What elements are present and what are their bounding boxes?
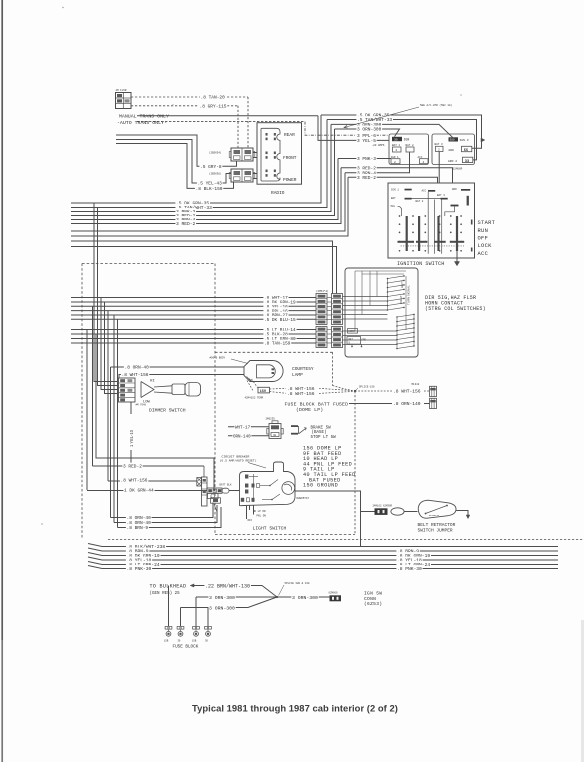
label .5 DK BLU-15 xyxy=(263,316,296,322)
label 3 RED-2 light switch xyxy=(122,463,142,469)
svg-text:MANUAL TRANS ONLY: MANUAL TRANS ONLY xyxy=(119,114,169,120)
wire feed BRN-9 riser xyxy=(117,319,119,527)
ign sw thick contact bars xyxy=(406,216,408,251)
scan edge left border xyxy=(1,0,3,640)
svg-text:.5 GRY-8: .5 GRY-8 xyxy=(200,164,222,170)
wires strip2 into switch box upper xyxy=(343,296,388,298)
radio connector inner xyxy=(261,128,280,181)
wire oval to retractor xyxy=(404,511,417,513)
svg-text:BAT: BAT xyxy=(391,197,396,200)
label .8 BRN-27 xyxy=(263,312,288,318)
wire 3 ORN-300 second xyxy=(181,597,278,608)
wire .8 DK GRN-19 xyxy=(71,301,316,303)
label .8 ORN-140 xyxy=(392,400,421,406)
svg-text:42M4152 TERM: 42M4152 TERM xyxy=(245,396,264,399)
svg-text:3 ORN-300: 3 ORN-300 xyxy=(292,595,318,601)
wire riser down to column connector 2 xyxy=(71,247,337,294)
scan speck marks xyxy=(62,7,63,8)
label .8 WHT-156 upper xyxy=(286,385,315,391)
svg-text:159: 159 xyxy=(260,390,266,394)
svg-text:ACC: ACC xyxy=(478,251,489,257)
svg-text:5EE A/C-HTR (5EC 1A): 5EE A/C-HTR (5EC 1A) xyxy=(420,103,453,107)
wire .8 TAN-159 xyxy=(71,342,316,344)
dashed wire to connector M1342 xyxy=(424,390,430,392)
light switch 40 box xyxy=(211,498,221,503)
radio pins group xyxy=(266,170,268,173)
label .8 YEL-16 xyxy=(263,303,288,309)
dashed boundary top xyxy=(82,263,215,265)
wire 3 RED-2 to light switch xyxy=(93,465,205,467)
wire bundle riser ORN-300 xyxy=(71,173,345,231)
wire feed ORN-40 second riser xyxy=(113,315,115,523)
svg-text:BRAKE 5W: BRAKE 5W xyxy=(311,427,332,431)
svg-text:Typical 1981 through 1987 cab: Typical 1981 through 1987 cab interior (… xyxy=(192,703,398,714)
svg-text:IGN: IGN xyxy=(404,138,410,142)
svg-text:1 YEL-10: 1 YEL-10 xyxy=(129,429,134,447)
connector 2M6235 body xyxy=(269,424,281,439)
fuse terminal 1 xyxy=(165,627,168,630)
svg-text:TO BULKHEAD: TO BULKHEAD xyxy=(150,583,187,589)
svg-text:RHEO5TAT: RHEO5TAT xyxy=(297,497,310,500)
svg-text:5WITCH JUMPER: 5WITCH JUMPER xyxy=(418,527,453,533)
label bottom left .8 PNK-30 xyxy=(126,565,152,571)
dashed wire dome feed down xyxy=(332,352,334,385)
svg-text:3 ORN-300: 3 ORN-300 xyxy=(357,127,382,133)
wire ORN-140 stub xyxy=(228,435,269,437)
svg-text:.8 ORN-140: .8 ORN-140 xyxy=(393,401,421,407)
wire feed RED-2 light switch xyxy=(92,306,94,466)
svg-text:REAR: REAR xyxy=(284,132,295,138)
dashed boundary left vertical xyxy=(81,264,83,540)
svg-text:(2B5K54): (2B5K54) xyxy=(209,151,222,155)
wire bulkhead arrow xyxy=(193,586,277,598)
svg-text:LIGHT 5WITCH: LIGHT 5WITCH xyxy=(253,525,287,531)
svg-text:ORN-140: ORN-140 xyxy=(233,435,251,439)
svg-text:.8 WHT-156: .8 WHT-156 xyxy=(393,389,421,395)
label 3 ORN-300 first xyxy=(208,593,235,599)
svg-text:COURTE5Y: COURTE5Y xyxy=(292,366,314,372)
label .5 DK GRN-35 xyxy=(356,112,390,118)
svg-text:DIMMER 5WITCH: DIMMER 5WITCH xyxy=(149,407,186,413)
dashed wire 159 to WHT-156 labels xyxy=(270,387,287,390)
label bottom left .8 BRN-9 xyxy=(126,548,149,554)
wire retractor drop to bottom bundle xyxy=(360,512,362,547)
svg-text:3 RED-2: 3 RED-2 xyxy=(176,221,196,227)
wire 3 BRN-4 to BAT 2 xyxy=(345,152,410,173)
radio U1 box xyxy=(257,123,302,185)
pin 33 xyxy=(463,157,473,162)
connector box U2 xyxy=(389,134,429,165)
wire retractor to ground xyxy=(456,511,468,516)
wire .8 GRY-115 dashed xyxy=(131,105,238,107)
svg-text:PNL ON: PNL ON xyxy=(257,515,267,518)
dashed wire splice to right WHT-156 xyxy=(355,390,392,392)
wire .8 PPL-16 xyxy=(71,310,316,312)
svg-text:3 RED-2: 3 RED-2 xyxy=(357,175,376,181)
column connector strip lower x316 xyxy=(316,327,327,348)
label .8 DK GRN-19 xyxy=(263,299,296,305)
svg-text:BATT BLK: BATT BLK xyxy=(220,483,233,486)
dashed boundary bottom horizontal xyxy=(215,534,355,536)
wire bundle riser PNK-3 xyxy=(71,124,331,211)
label bottom left .8 DK GRN-19 xyxy=(126,552,161,558)
svg-text:1 DK GRN-44: 1 DK GRN-44 xyxy=(124,488,154,494)
svg-text:OFF: OFF xyxy=(248,519,253,522)
svg-text:(6.5 AMP/AUTO RE5ET): (6.5 AMP/AUTO RE5ET) xyxy=(220,458,257,462)
svg-text:(5TRG COL 5WITCHE5): (5TRG COL 5WITCHE5) xyxy=(425,306,486,312)
svg-text:.8 WHT-156: .8 WHT-156 xyxy=(122,372,149,378)
light switch pill connector xyxy=(222,488,229,493)
wire .8 BLK-150 xyxy=(116,144,234,189)
svg-text:5PLICE-156: 5PLICE-156 xyxy=(359,385,375,388)
svg-text:RADIO: RADIO xyxy=(271,190,285,196)
label 3 BRN-4 xyxy=(356,169,376,175)
wire 3 ORN-300 to pin 30 xyxy=(335,129,400,137)
ignition switch S1 box xyxy=(388,183,475,258)
svg-text:POWER: POWER xyxy=(283,177,297,183)
ign sw contact dots grid xyxy=(399,215,401,217)
label 1 DK GRN-44 xyxy=(123,487,154,493)
wire .8 ORN-40 to courtesy lamp xyxy=(111,366,245,368)
wires strip1 to strip2 xyxy=(327,297,332,299)
dimmer switch triangle xyxy=(141,382,154,398)
label .5 TAN/WHT-33 left xyxy=(175,204,212,210)
label bottom left .8 YEL-18 xyxy=(126,557,152,563)
connector 62M660 black xyxy=(330,595,342,601)
wire 3 ORN-300 to pin 300 xyxy=(331,124,453,137)
light switch body outline xyxy=(240,462,296,506)
dashed boundary step horizontal xyxy=(215,351,333,353)
label .5 LT GRN-80 xyxy=(263,335,296,341)
ign sw wire BAT to BAT 2 xyxy=(412,198,441,200)
label .8 PPL-16 xyxy=(263,307,288,313)
svg-text:2M4162 62M36R: 2M4162 62M36R xyxy=(373,504,393,507)
light switch interior pins xyxy=(245,475,248,479)
label .8 ORN-40 xyxy=(124,364,150,370)
dimmer connector strip xyxy=(119,378,136,402)
svg-text:4M FL5R: 4M FL5R xyxy=(116,89,127,92)
radio pins group xyxy=(266,133,268,136)
dashed wires labels to splice xyxy=(319,388,355,391)
wire drop t2 xyxy=(180,608,182,627)
svg-text:.8 TAN-20: .8 TAN-20 xyxy=(201,95,226,101)
wire .8 BRN-27 xyxy=(71,314,316,316)
wire drop t3 xyxy=(195,597,197,627)
splice 156 junction xyxy=(354,390,356,392)
splice 300 junction xyxy=(276,596,278,598)
svg-text:150 GROUND: 150 GROUND xyxy=(303,483,338,489)
wire connector to radio upper xyxy=(253,152,257,154)
wire .5 GRY-8 xyxy=(116,135,237,166)
column connector strip upper x331.5 xyxy=(332,294,343,325)
wire .8 ORN-40 lower xyxy=(111,503,214,518)
wire riser down to column connector xyxy=(71,241,333,294)
svg-text:START: START xyxy=(478,220,496,226)
label .8 WHT-156 lower xyxy=(286,390,315,396)
pin BAT 3 xyxy=(436,146,444,151)
svg-text:LOW: LOW xyxy=(143,400,151,404)
ign sw thin wires xyxy=(427,192,429,254)
svg-text:LOCK: LOCK xyxy=(478,243,493,249)
svg-text:GRD: GRD xyxy=(449,149,455,152)
label bottom right .8 LT GRN-24 xyxy=(396,561,431,567)
svg-text:2M6235: 2M6235 xyxy=(266,418,276,421)
ign sw thick cross bars LOCK row xyxy=(398,241,415,243)
svg-text:33: 33 xyxy=(465,160,469,164)
label 3 ORN-300 xyxy=(356,121,382,127)
brake switch symbol xyxy=(291,425,298,427)
svg-text:LAMP: LAMP xyxy=(292,372,303,378)
connector 2B5K54 xyxy=(231,148,253,161)
svg-text:BAT 2: BAT 2 xyxy=(416,200,424,203)
wire .5 YEL-43 xyxy=(116,140,231,184)
connector box U3 xyxy=(432,134,475,165)
connector 2M4162 black xyxy=(375,508,388,515)
wire .5 LT BLU-14 xyxy=(71,329,316,331)
label .8 WHT-156 dimmer xyxy=(121,371,149,377)
label WHT-17 xyxy=(234,424,250,430)
light switch diag wire xyxy=(214,504,217,512)
label .5 TAN/WHT-33 xyxy=(356,116,393,122)
pin 4 xyxy=(420,159,429,164)
belt retractor switch body xyxy=(418,500,456,518)
label 3 ORN-300 right xyxy=(291,593,318,599)
svg-text:GRD: GRD xyxy=(452,188,457,191)
svg-text:5TOP LT 5W: 5TOP LT 5W xyxy=(311,436,337,440)
wires strip2 into switch box lower xyxy=(343,330,398,332)
svg-text:40: 40 xyxy=(273,434,277,437)
connector oval terminal xyxy=(391,508,404,515)
connector 2B5K56 xyxy=(231,169,253,182)
svg-text:.8 PNK-30: .8 PNK-30 xyxy=(127,566,152,572)
svg-text:BELT RETRACTOR: BELT RETRACTOR xyxy=(418,522,456,528)
wire .8 WHT-156 to courtesy lamp xyxy=(119,375,244,379)
steering column switch box xyxy=(345,268,418,357)
light switch X connector xyxy=(197,478,202,487)
svg-text:(6Z53): (6Z53) xyxy=(364,601,382,607)
svg-text:62M66R: 62M66R xyxy=(453,167,463,170)
column connector strip upper x316 xyxy=(316,294,327,325)
light switch round connector xyxy=(208,493,219,498)
svg-text:(2B5K56): (2B5K56) xyxy=(209,172,222,176)
wire .8 ORN-40 lower second xyxy=(114,505,217,523)
fuse terminal 4 xyxy=(205,627,208,630)
svg-text:BAT 3: BAT 3 xyxy=(435,143,443,146)
pin BAT 2 xyxy=(406,147,414,152)
label .5 LT BLU-14 xyxy=(263,326,296,332)
label ORN-140 xyxy=(232,432,251,438)
svg-text:.8 BRN-9: .8 BRN-9 xyxy=(127,525,149,531)
svg-text:2: 2 xyxy=(396,149,398,152)
arrow marker right of box2 xyxy=(481,138,485,142)
ground below ignition switch xyxy=(456,251,458,262)
wire feed dimmer row4 xyxy=(105,302,119,394)
wire BAT 3 to ignition switch xyxy=(438,152,440,184)
connector 4M flasher xyxy=(116,93,132,109)
svg-text:IGN 3: IGN 3 xyxy=(460,139,469,142)
dimmer switch stem xyxy=(154,386,172,387)
circuit breaker leader xyxy=(248,463,266,469)
belt retractor blade xyxy=(426,506,448,514)
svg-text:RETRACTO: RETRACTO xyxy=(429,514,440,517)
fuse terminal 2 xyxy=(177,627,180,630)
wire feed WHT-156 xyxy=(107,311,109,481)
svg-text:HORN: HORN xyxy=(349,330,356,333)
svg-text:HI: HI xyxy=(150,380,155,384)
svg-text:HD LP ON: HD LP ON xyxy=(253,510,266,513)
radio pins group xyxy=(266,152,268,155)
svg-text:IGN 5W: IGN 5W xyxy=(364,591,382,597)
svg-text:15B: 15B xyxy=(164,640,169,643)
label 3 ORN-300 second xyxy=(356,126,382,132)
svg-text:.8 BLK-150: .8 BLK-150 xyxy=(196,186,223,192)
label bottom left .8 BLK/WHT-238 xyxy=(126,543,166,549)
svg-text:#9046 BODY: #9046 BODY xyxy=(210,356,226,359)
wire .8 WHT-156 to light switch xyxy=(108,480,197,482)
svg-text:30: 30 xyxy=(394,138,398,141)
wire 1 DK GRN-44 to light switch xyxy=(87,490,207,492)
svg-text:OFF: OFF xyxy=(478,236,489,242)
retractor ground arrow xyxy=(466,515,470,519)
dashes courtesy lamp to terminal 159 xyxy=(252,379,258,388)
label 3 RED-2 xyxy=(356,164,376,170)
switch box inner verticals xyxy=(405,276,407,330)
label 3 PNK-3 left xyxy=(175,208,196,214)
connector M1342 lower xyxy=(430,398,437,408)
svg-text:.22 BRN/WHT-130: .22 BRN/WHT-130 xyxy=(205,583,250,589)
svg-text:TURN 5IGNAL: TURN 5IGNAL xyxy=(407,285,411,305)
wire bottom .8 LT GRN-24 xyxy=(88,562,558,565)
svg-text:.8 ORN-40: .8 ORN-40 xyxy=(125,365,150,371)
wire 1 YEL-10 vertical xyxy=(130,402,132,466)
label bottom left .8 LT GRN-24 xyxy=(126,561,161,567)
wire connector to light switch body xyxy=(229,490,240,492)
light switch rheostat circle xyxy=(282,482,295,495)
wire bundle riser ORN-300 xyxy=(71,177,348,236)
svg-text:(GEN RE5) 25: (GEN RE5) 25 xyxy=(150,591,181,596)
wire .5 DK BLU-15 xyxy=(71,318,316,320)
label .8 WHT-17 xyxy=(263,294,288,300)
wire AUTO TRANS ONLY / 3 PPL-6 dashed xyxy=(137,121,305,123)
switch contacts upper column join xyxy=(387,279,389,311)
svg-text:GRD: GRD xyxy=(362,339,367,342)
svg-text:CONN: CONN xyxy=(364,596,376,602)
wire bundle riser DK GRN-35 xyxy=(71,115,321,203)
svg-text:5PLICE 300 & 130: 5PLICE 300 & 130 xyxy=(285,582,310,585)
svg-text:3 PPL-6: 3 PPL-6 xyxy=(357,133,376,139)
label .8 TAN-159 xyxy=(263,340,291,346)
label .22 BRN/WHT-130 xyxy=(204,582,251,589)
wire splice to ign conn xyxy=(277,596,330,598)
svg-text:WHT-17: WHT-17 xyxy=(235,426,251,430)
wire .5 BLK-28 xyxy=(71,333,316,335)
label bottom right .8 BRN-9 xyxy=(396,548,419,554)
fuse terminal 3 xyxy=(193,627,196,630)
wire bottom .8 DK GRN-19 xyxy=(88,553,558,556)
wire feed upper light switch xyxy=(96,334,214,491)
svg-text:15B: 15B xyxy=(192,640,197,643)
svg-text:2: 2 xyxy=(394,161,396,164)
pin IGN 1 xyxy=(391,159,400,164)
label .8 ORN-40 lower second xyxy=(126,519,152,525)
svg-text:M1342: M1342 xyxy=(412,383,420,386)
dashed wire splice down to bottom xyxy=(354,391,356,535)
switch contacts lower column xyxy=(396,316,398,318)
svg-text:4: 4 xyxy=(423,161,425,164)
svg-text:.8 PNK-30: .8 PNK-30 xyxy=(397,566,422,572)
wire bundle riser TAN/WHT-33 xyxy=(71,120,327,208)
svg-text:3 PNK-3: 3 PNK-3 xyxy=(357,156,376,162)
svg-text:RUN: RUN xyxy=(478,228,489,234)
wire bottom .8 PNK-30 xyxy=(88,566,558,569)
label .8 WHT-156 right xyxy=(392,388,421,394)
wire feed DK GRN-44 xyxy=(86,330,88,491)
svg-text:300: 300 xyxy=(450,139,455,142)
pin 30 black xyxy=(392,137,402,141)
wire bottom .8 YEL-18 xyxy=(88,557,558,560)
svg-text:.8 TAN-159: .8 TAN-159 xyxy=(264,342,291,347)
svg-text:.8 WHT-156: .8 WHT-156 xyxy=(287,391,315,397)
svg-text:(DOME LP): (DOME LP) xyxy=(296,407,323,413)
wire bottom .8 BRN-9 xyxy=(88,548,558,551)
label .8 ORN-40 lower xyxy=(126,514,152,520)
wire switch top connects xyxy=(355,270,406,272)
svg-text:3 ORN-300: 3 ORN-300 xyxy=(209,595,235,601)
svg-text:FU5E BLOCK: FU5E BLOCK xyxy=(173,645,199,650)
svg-text:FU5E BLOCK BATT FU5ED: FU5E BLOCK BATT FU5ED xyxy=(285,402,349,408)
ign sw right ticks xyxy=(471,220,473,225)
pin 300 black xyxy=(449,137,459,141)
courtesy lamp hatch xyxy=(249,379,253,383)
wire WHT-17 stub xyxy=(228,426,269,428)
wire ORN-140 to connector xyxy=(424,403,430,405)
label 3 RED-2 second xyxy=(356,174,376,180)
svg-text:3 ORN-300: 3 ORN-300 xyxy=(209,605,235,611)
wire 3 PNK-3 to IGN 1 xyxy=(338,158,391,160)
wire bottom .8 BLK/WHT-238 xyxy=(88,544,558,547)
svg-text:.8 GRY-115: .8 GRY-115 xyxy=(200,104,227,110)
wire drop t4 xyxy=(207,608,209,627)
dashed boundary mid vertical xyxy=(214,264,216,535)
ign sw IGN 3 bar xyxy=(451,205,459,207)
light switch connector strip xyxy=(202,477,208,506)
light switch horizontal connector xyxy=(207,488,222,493)
svg-text:RIGHT: RIGHT xyxy=(399,295,403,304)
column connector strip lower x331.5 xyxy=(332,327,343,348)
switch horn sub box xyxy=(347,337,361,345)
label 3 ORN-300 second xyxy=(208,604,235,610)
note leader line xyxy=(344,107,419,128)
svg-text:62M660: 62M660 xyxy=(329,591,339,594)
courtesy lamp DS1 xyxy=(244,361,283,382)
wire .8 WHT-17 xyxy=(71,297,316,299)
dashed separator line xyxy=(108,539,584,541)
svg-text:50L: 50L xyxy=(391,205,396,208)
svg-text:55: 55 xyxy=(464,149,468,153)
wire 3 ORN-300 first xyxy=(196,596,277,598)
wire feed dimmer row1 xyxy=(94,203,119,382)
wire drop t1 xyxy=(168,586,170,627)
svg-text:LEFT: LEFT xyxy=(400,281,404,288)
pin BAT 1 xyxy=(393,147,402,152)
wire bundle riser RED-2 xyxy=(71,168,341,224)
switch contacts upper column xyxy=(387,278,389,280)
label 3 RED-2 left xyxy=(175,212,196,218)
terminal 159 box xyxy=(258,387,270,393)
svg-text:.8 WHT-156: .8 WHT-156 xyxy=(121,478,148,484)
svg-text:IGN 1: IGN 1 xyxy=(391,189,399,192)
light switch bottom pins xyxy=(249,506,251,511)
